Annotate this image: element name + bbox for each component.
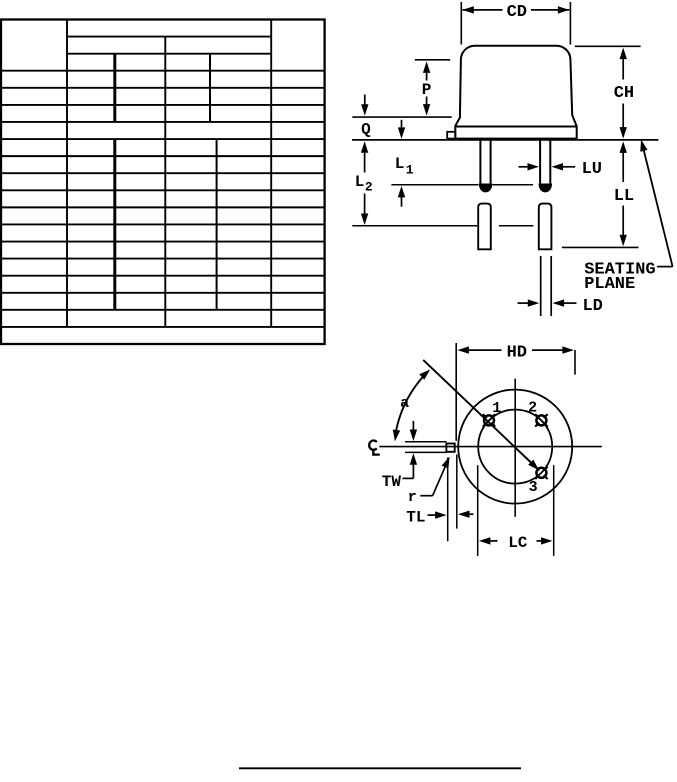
svg-text:TL: TL <box>406 508 425 526</box>
svg-text:CD: CD <box>507 3 527 22</box>
svg-text:PLANE: PLANE <box>584 275 635 294</box>
svg-text:1: 1 <box>406 163 414 178</box>
svg-text:Q: Q <box>361 120 371 138</box>
svg-text:LC: LC <box>508 534 528 552</box>
svg-text:r: r <box>408 489 417 506</box>
svg-text:L: L <box>395 155 405 173</box>
svg-text:TW: TW <box>382 473 402 491</box>
svg-text:2: 2 <box>528 400 537 417</box>
svg-text:LU: LU <box>582 160 602 179</box>
svg-text:L: L <box>355 173 365 191</box>
svg-text:CH: CH <box>614 84 634 103</box>
svg-text:3: 3 <box>529 479 538 496</box>
svg-text:HD: HD <box>507 343 527 362</box>
svg-text:LD: LD <box>582 297 602 316</box>
svg-text:1: 1 <box>492 400 501 417</box>
svg-text:2: 2 <box>365 180 373 195</box>
svg-text:a: a <box>400 395 409 412</box>
svg-text:LL: LL <box>614 187 634 206</box>
